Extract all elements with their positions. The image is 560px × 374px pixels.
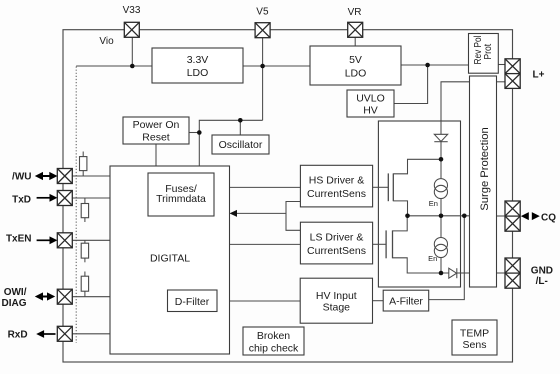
wire CQ mid rail — [408, 215, 470, 217]
svg-text:Vio: Vio — [99, 36, 114, 47]
svg-text:Surge Protection: Surge Protection — [479, 127, 491, 210]
svg-text:CurrentSens: CurrentSens — [307, 188, 366, 200]
wire 3.3V LDO to 5V LDO — [243, 65, 310, 67]
svg-text:Power On: Power On — [133, 119, 180, 131]
wire CQ sense to A-Filter — [429, 216, 465, 300]
pad CQ — [505, 201, 520, 231]
node LS source junction — [439, 271, 444, 276]
label GND/L- — [531, 265, 553, 287]
svg-text:DIAG: DIAG — [2, 298, 27, 309]
pad GND/L- — [505, 258, 520, 288]
wire digital to HV input — [230, 300, 301, 302]
pad TxEN — [57, 233, 72, 248]
block D-Filter — [168, 290, 218, 312]
wire V33 stem — [131, 37, 133, 66]
wire current sense arrow to digital — [230, 202, 301, 231]
label TxD + arrow — [12, 194, 57, 206]
svg-text:Broken: Broken — [257, 330, 290, 342]
wire 5V branch to UVLO — [394, 65, 428, 104]
svg-text:Sens: Sens — [463, 339, 487, 351]
svg-text:5V: 5V — [349, 54, 362, 66]
svg-text:chip check: chip check — [249, 343, 299, 355]
svg-text:L+: L+ — [533, 69, 545, 80]
label /WU + arrow — [12, 171, 57, 182]
wire RevPol to L+ — [498, 64, 505, 66]
wire RxD to digital — [73, 333, 111, 335]
svg-text:Oscillator: Oscillator — [219, 139, 263, 151]
wire HS driver to digital — [230, 186, 301, 188]
wire Surge to GND — [497, 272, 506, 274]
svg-text:TxEN: TxEN — [6, 234, 32, 245]
node V33/Vio junction — [130, 64, 135, 69]
label RxD + arrow — [8, 330, 56, 341]
pad V33 — [124, 22, 139, 37]
current source I2 — [428, 216, 447, 273]
resistor R2 — [81, 198, 88, 222]
label TxEN + arrow — [6, 234, 57, 245]
transistor Q1 HS MOSFET — [373, 173, 408, 215]
chip outline border — [63, 30, 513, 362]
svg-text:RxD: RxD — [8, 330, 28, 341]
svg-text:CQ: CQ — [541, 213, 556, 224]
transistor Q2 LS MOSFET — [373, 216, 449, 273]
wire POR link — [189, 132, 199, 134]
node CQ rail right junction — [462, 214, 467, 219]
node CQ rail mid junction — [439, 214, 444, 219]
node POR junction — [197, 130, 202, 135]
svg-text:UVLO: UVLO — [356, 92, 385, 104]
svg-text:En: En — [429, 199, 438, 208]
diode D2 — [449, 268, 470, 278]
svg-text:Reset: Reset — [142, 132, 170, 144]
wire Surge to CQ — [497, 215, 506, 217]
svg-text:LS Driver &: LS Driver & — [310, 232, 364, 244]
svg-text:A-Filter: A-Filter — [389, 296, 423, 308]
wire OWI to digital — [73, 296, 111, 298]
wire Surge to HV rail — [441, 82, 470, 121]
wire POR bottom drop — [155, 144, 157, 166]
svg-text:VR: VR — [348, 7, 362, 18]
svg-text:Rev Pol: Rev Pol — [471, 36, 483, 65]
wire Surge to L+ — [497, 81, 506, 83]
block HV Input Stage — [300, 278, 372, 323]
wire V5 stem down — [262, 37, 264, 120]
svg-text:/L-: /L- — [536, 276, 548, 287]
pad OWI/DIAG — [57, 289, 72, 304]
pad RxD — [57, 326, 72, 341]
svg-text:TxD: TxD — [12, 194, 31, 205]
pad VR — [348, 22, 363, 37]
block Oscillator — [212, 135, 269, 154]
svg-text:V33: V33 — [123, 5, 141, 16]
node 5V rail junction — [425, 63, 430, 68]
wire Vio rail — [76, 65, 152, 67]
svg-text:OWI/: OWI/ — [4, 287, 27, 298]
block HS Driver & CurrentSens — [300, 165, 372, 207]
wire 5V rail to Rev Pol — [401, 64, 469, 66]
svg-text:GND: GND — [531, 265, 553, 276]
pad L+ — [505, 59, 520, 89]
svg-text:En: En — [428, 254, 437, 263]
svg-text:Trimmdata: Trimmdata — [156, 193, 206, 205]
block Power On Reset — [123, 117, 189, 144]
svg-text:/WU: /WU — [12, 171, 31, 182]
wire oscillator drop — [239, 120, 241, 135]
node oscillator junction — [238, 118, 243, 123]
block DIGITAL — [110, 166, 230, 354]
svg-text:DIGITAL: DIGITAL — [150, 253, 190, 265]
svg-text:Prot: Prot — [482, 44, 494, 60]
svg-text:TEMP: TEMP — [460, 328, 489, 340]
node HS drain junction — [439, 157, 444, 162]
block Surge Protection — [470, 76, 497, 287]
block Fuses/Trimmdata — [148, 173, 214, 216]
node V5 junction — [260, 64, 265, 69]
regulator 5V LDO — [310, 46, 401, 85]
label CQ + arrow — [521, 212, 556, 223]
pad /WU — [57, 169, 72, 184]
label OWI/DIAG + arrow — [2, 287, 56, 309]
resistor R1 — [80, 152, 87, 177]
svg-text:HV Input: HV Input — [316, 290, 357, 302]
svg-text:CurrentSens: CurrentSens — [307, 245, 366, 257]
svg-text:3.3V: 3.3V — [187, 54, 209, 66]
wire V5 branch to POR/Oscillator — [199, 120, 262, 166]
wire LS driver to digital — [230, 243, 301, 245]
svg-text:D-Filter: D-Filter — [175, 296, 210, 308]
dotted Vio domain boundary — [75, 67, 77, 344]
block UVLO HV — [347, 90, 394, 117]
block Rev Pol Prot — [469, 34, 499, 74]
block LS Driver & CurrentSens — [300, 222, 372, 264]
svg-text:HV: HV — [363, 105, 378, 117]
pad V5 — [255, 23, 270, 38]
wire HV input to A-Filter — [373, 300, 384, 302]
svg-text:LDO: LDO — [187, 67, 209, 79]
wire TxD to digital — [73, 197, 111, 199]
wire TxEN to digital — [73, 239, 111, 241]
node CQ rail left junction — [405, 214, 410, 219]
box output stage — [378, 121, 460, 287]
svg-text:V5: V5 — [256, 7, 269, 18]
svg-text:HS Driver &: HS Driver & — [309, 175, 364, 187]
regulator 3.3V LDO — [152, 48, 243, 83]
svg-text:LDO: LDO — [345, 68, 367, 80]
wire HS drain rail — [393, 159, 441, 174]
pad TxD — [57, 191, 72, 206]
block Broken chip check — [243, 327, 304, 355]
wire VR stem — [354, 37, 356, 46]
block A-Filter — [383, 290, 429, 311]
wire /WU to digital — [73, 175, 111, 177]
block TEMP Sens — [452, 320, 497, 355]
current source I1 — [429, 159, 448, 216]
resistor R4 — [81, 272, 88, 297]
resistor R3 — [81, 240, 88, 262]
svg-text:Stage: Stage — [323, 302, 351, 314]
wire HV rail into diode — [440, 121, 442, 134]
diode D1 — [434, 134, 447, 159]
